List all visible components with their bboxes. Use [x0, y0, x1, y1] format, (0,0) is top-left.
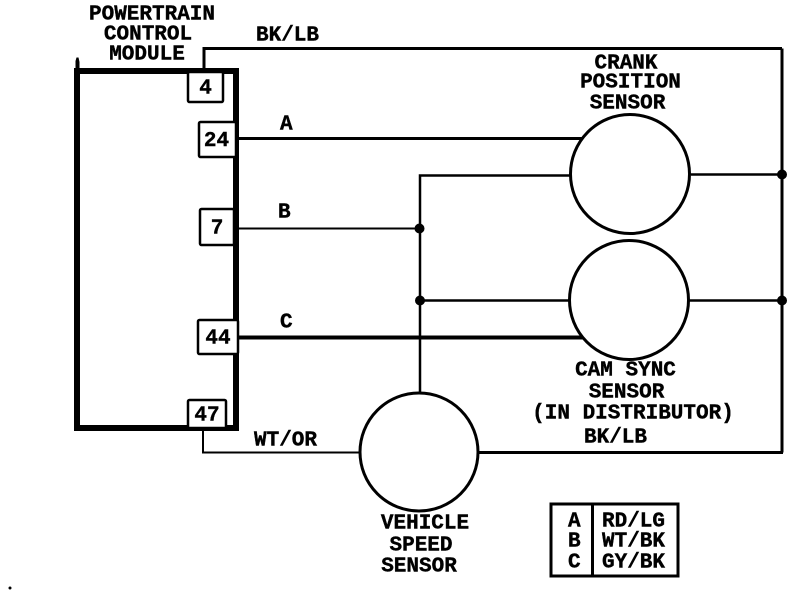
cam sync sensor	[532, 241, 734, 426]
connector pin legend table	[551, 504, 678, 576]
svg-text:B: B	[278, 201, 291, 224]
svg-text:POSITION: POSITION	[580, 71, 681, 94]
vehicle speed sensor	[360, 393, 478, 578]
svg-text:WT/BK: WT/BK	[602, 530, 665, 553]
label POWERTRAIN CONTROL MODULE	[89, 3, 215, 66]
svg-text:WT/OR: WT/OR	[254, 429, 317, 452]
junction crank/right bus	[777, 170, 787, 180]
svg-text:4: 4	[199, 78, 212, 101]
svg-text:A: A	[280, 113, 293, 136]
wire sensor bus (vertical, VSS top to crank feed)	[420, 176, 570, 395]
wire cam sync to right bus	[689, 299, 782, 302]
speck artifact bottom left	[9, 587, 12, 590]
crank position sensor	[571, 52, 690, 233]
svg-text:C: C	[568, 551, 581, 574]
wire A (pin 24 to crank position sensor)	[236, 137, 583, 140]
svg-text:SENSOR: SENSOR	[589, 381, 665, 404]
junction cam/right bus	[777, 296, 787, 306]
svg-text:MODULE: MODULE	[109, 43, 185, 66]
wire cam sync feed	[420, 299, 569, 302]
svg-text:47: 47	[194, 405, 219, 428]
pin 7	[200, 209, 234, 245]
wire B (pin 7 to junction on sensor-return bus)	[234, 228, 420, 230]
wire C (pin 44 to cam sync sensor)	[238, 336, 583, 340]
wire right bus BK/LB (vertical)	[781, 49, 784, 453]
svg-text:SENSOR: SENSOR	[381, 555, 457, 578]
pin 44	[198, 320, 238, 354]
svg-text:SENSOR: SENSOR	[590, 92, 666, 115]
svg-text:7: 7	[211, 218, 224, 241]
svg-text:44: 44	[205, 328, 230, 351]
junction cam feed	[415, 296, 425, 306]
svg-text:CAM SYNC: CAM SYNC	[575, 359, 676, 382]
wire BK/LB top (pin 4 to right bus)	[204, 49, 782, 69]
powertrain control module U1 box	[77, 71, 236, 428]
svg-text:VEHICLE: VEHICLE	[381, 512, 469, 535]
svg-text:SPEED: SPEED	[389, 534, 452, 557]
svg-text:BK/LB: BK/LB	[256, 24, 319, 47]
svg-text:(IN DISTRIBUTOR): (IN DISTRIBUTOR)	[532, 402, 734, 425]
svg-text:B: B	[568, 530, 581, 553]
pin 24	[199, 122, 236, 157]
svg-text:C: C	[280, 311, 293, 334]
junction B-bus	[415, 224, 425, 234]
svg-text:GY/BK: GY/BK	[602, 551, 665, 574]
wire BK/LB bottom (VSS to right bus)	[478, 451, 783, 454]
pin 47	[188, 400, 226, 428]
wire crank sensor to right bus	[691, 173, 782, 176]
artifact arrow at PCM top-left corner	[76, 58, 80, 71]
svg-text:BK/LB: BK/LB	[584, 426, 647, 449]
svg-text:24: 24	[204, 130, 229, 153]
pin 4	[188, 72, 223, 102]
wire WT/OR (pin 47 to vehicle speed sensor)	[203, 431, 360, 453]
